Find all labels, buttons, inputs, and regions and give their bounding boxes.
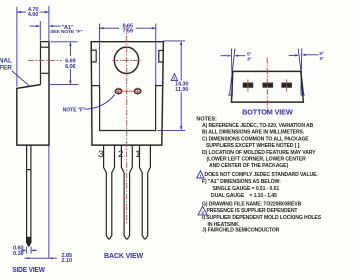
red tick right slot (137, 87, 139, 95)
svg-text:NOTE "F": NOTE "F" (63, 108, 86, 114)
hole edge lines in tab (41, 46, 50, 48)
red centerline through hole, side view (28, 59, 62, 61)
lead tip (dark chamfered end) (26, 237, 31, 247)
svg-text:G) DRAWING FILE NAME: TO220B0: G) DRAWING FILE NAME: TO220B03REVB (202, 201, 302, 207)
extension line A1 (tab front face) (39, 21, 41, 41)
gauge slot right (135, 89, 141, 93)
svg-text:3°: 3° (247, 57, 252, 63)
right notch (159, 51, 163, 63)
note delta-1 (197, 171, 204, 178)
side view molded body (17, 42, 49, 146)
svg-text:CHAMFER: CHAMFER (0, 64, 12, 71)
lead 3 (back view) (104, 145, 115, 239)
optional chamfer label (clipped at left edge) (0, 58, 30, 87)
lead 1 (back view) (140, 145, 151, 239)
svg-text:AND CENTER OF THE PACKAGE): AND CENTER OF THE PACKAGE) (209, 163, 288, 169)
side view lead (26, 145, 28, 243)
svg-text:SEE NOTE "F": SEE NOTE "F" (50, 29, 83, 35)
dimension 14.30/11.50 right of back view (157, 41, 188, 130)
side view tab (41, 42, 50, 85)
svg-text:SUPPLIERS EXCEPT WHERE NOTED [: SUPPLIERS EXCEPT WHERE NOTED [ ]. (206, 143, 301, 149)
svg-text:BACK VIEW: BACK VIEW (104, 251, 144, 260)
svg-text:DUAL GAUGE = 1.10 - 1.45: DUAL GAUGE = 1.10 - 1.45 (211, 193, 277, 199)
gauge slot left (note F) (115, 89, 121, 93)
note delta-2 (198, 206, 207, 215)
red tick left slot (117, 87, 119, 95)
svg-text:I) SUPPLIER DEPENDENT MOLD LO: I) SUPPLIER DEPENDENT MOLD LOCKING HOLES (202, 215, 322, 221)
svg-text:PRESENCE IS SUPPLIER DEPENDENT: PRESENCE IS SUPPLIER DEPENDENT (207, 208, 299, 214)
lead cross-sections (243, 83, 254, 88)
svg-text:D) LOCATION OF MOLDED FEATURE: D) LOCATION OF MOLDED FEATURE MAY VARY (202, 150, 316, 156)
lead shoulder tick (26, 169, 32, 171)
angle callout left 5/3 deg (221, 52, 252, 95)
angle callout right 5/3 deg (289, 51, 324, 95)
svg-text:2: 2 (118, 149, 123, 160)
mounting hole (114, 47, 138, 73)
lead 2 (back view) (121, 145, 132, 239)
NOTE F label and leader (63, 94, 115, 113)
dimension 2.85/2.10 (25, 253, 72, 264)
draft angle lines right (298, 49, 304, 96)
svg-text:F) "A1" DIMENSIONS AS BELOW:: F) "A1" DIMENSIONS AS BELOW: (202, 179, 281, 185)
svg-text:2.10: 2.10 (62, 258, 72, 264)
extension line tab back face (long, shared by 4.70 / A1 / 2.85 dims) (48, 6, 50, 259)
dimension 6.69/6.06 (50, 42, 78, 85)
bottom view body (232, 71, 304, 102)
svg-text:6.06: 6.06 (65, 64, 75, 70)
svg-text:4.00: 4.00 (28, 12, 38, 18)
svg-text:11.90: 11.90 (175, 87, 188, 93)
svg-text:C) DIMENSIONS COMMON TO ALL P: C) DIMENSIONS COMMON TO ALL PACKAGE (202, 136, 309, 142)
pedestal (molded boss) (92, 86, 163, 131)
dimension 0.60/0.38 lead thickness (13, 246, 37, 257)
extension lines for 8.65 dim (99, 24, 101, 86)
left notch (91, 50, 96, 62)
red tick through right lead (286, 79, 288, 91)
svg-text:7.59: 7.59 (122, 29, 132, 35)
red centerline horizontal through hole, back view (112, 59, 141, 61)
dimension 8.65/7.59 (100, 23, 156, 34)
svg-text:J) FAIRCHILD SEMICONDUCTOR: J) FAIRCHILD SEMICONDUCTOR (202, 228, 280, 234)
svg-text:DOES NOT COMPLY JEDEC STANDARD: DOES NOT COMPLY JEDEC STANDARD VALUE. (205, 172, 319, 178)
red tick through left lead (247, 79, 249, 91)
svg-text:BOTTOM VIEW: BOTTOM VIEW (242, 108, 294, 117)
draft angle lines left (230, 49, 235, 96)
svg-text:(LOWER LEFT CORNER, LOWER CENT: (LOWER LEFT CORNER, LOWER CENTER (207, 156, 307, 162)
red centerline vertical, back view (126, 26, 128, 225)
back view body outline (91, 42, 163, 145)
svg-text:B) ALL DIMENSIONS ARE IN MILL: B) ALL DIMENSIONS ARE IN MILLIMETERS. (202, 130, 305, 136)
dimension 4.70/4.00 body thickness (17, 7, 49, 18)
svg-text:NOTES:: NOTES: (196, 116, 217, 122)
svg-text:3: 3 (98, 149, 103, 160)
svg-text:3°: 3° (319, 56, 324, 62)
red line through gauge slots (115, 90, 141, 92)
dimension A1 SEE NOTE F (30, 25, 83, 35)
svg-text:SINGLE GAUGE = 0.51 - 0.61: SINGLE GAUGE = 0.51 - 0.61 (213, 186, 280, 192)
svg-text:1: 1 (135, 149, 140, 160)
red centerline vertical bottom view (266, 58, 268, 114)
svg-text:SIDE VIEW: SIDE VIEW (12, 265, 45, 274)
svg-text:A) REFERENCE JEDEC, TO-220, V: A) REFERENCE JEDEC, TO-220, VARIATION AB (202, 123, 314, 129)
svg-text:0.38: 0.38 (13, 251, 23, 257)
extension line left of 4.70 dim (16, 7, 18, 87)
